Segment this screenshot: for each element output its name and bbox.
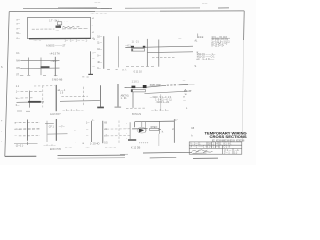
svg-text:≈4·0.5 TH: ≈4·0.5 TH [50,52,60,55]
svg-text:1:1·: 1:1· [234,153,238,155]
notes header [197,36,230,39]
dashed wire W20 vertical [82,87,84,107]
svg-text:o . t: o . t [122,69,126,72]
wire W1 [125,46,193,47]
svg-text:¼ ·1—·11: ¼ ·1—·11 [191,142,202,145]
svg-text:— · — · —: — · — · — [105,147,117,149]
svg-text:· — ·: · — · [85,147,90,149]
svg-text:A-M 4'O?: A-M 4'O? [50,113,61,116]
bottom-left tick row [14,142,38,148]
capacitor string C2 [82,51,96,77]
wire W26 vertical [46,121,48,142]
U1 pin ticks right [92,18,95,40]
wire W14 vertical dark [55,85,57,111]
ticks under W15 [17,110,30,112]
tick wires [45,123,68,134]
dashed wire W18 [61,95,88,97]
sheet top edge [23,7,229,8]
svg-text:—w·1 ·: —w·1 · [51,61,59,63]
svg-text:0—11 0—1•: 0—11 0—1• [211,46,223,48]
title block table [189,142,242,154]
dashed wire W11 [126,107,146,109]
resistor R1 [41,66,50,68]
border frame [5,11,244,157]
resistor R2 [131,46,134,48]
note text block [150,97,173,104]
svg-text:w—: w— [15,123,20,125]
svg-text:8 1 ·8·1: 8 1 ·8·1 [224,143,233,145]
wire inside U1 [32,28,89,31]
bottom border segments [5,152,218,158]
node labels left of bias network [16,53,22,77]
dashed wire W5 [152,56,175,58]
transistor Q2 [143,85,147,88]
wire W3 vertical [146,39,148,67]
svg-text:·—·—: ·—·— [94,2,101,4]
svg-text:PWR AMP: PWR AMP [150,84,161,87]
wire W12 vertical [29,91,31,108]
scribble right cells [224,148,240,154]
dashed wire W16 [21,90,43,92]
scale bar B3 [86,120,95,142]
margin ticks [1,67,3,143]
svg-text:a·: a· [183,96,185,98]
svg-text:CF 1: CF 1 [49,127,55,129]
svg-text:·—·: ·—· [56,31,60,33]
svg-text:1 · 01: 1 · 01 [121,98,128,100]
svg-text:—7—: —7— [59,127,66,129]
svg-text:- -: - - [74,130,76,132]
svg-text:· · ·: · · · [64,21,68,23]
svg-text:· — · —: · — · — [33,40,42,42]
svg-text:11—: 11— [97,42,102,44]
svg-text:A· —1· ——1 ·— 1—·1 ——: A· —1· ——1 ·— 1—·1 —— [191,146,221,149]
scale bar B2 [107,36,131,71]
svg-text:— · —: — · — [65,147,72,149]
svg-text:6O: 6O [184,91,187,93]
svg-text:40—: 40— [97,62,103,64]
svg-text:B PLUS: B PLUS [132,113,141,116]
scale bar B4 [103,121,108,145]
battery box BT2 [131,89,145,92]
svg-text:A 56O5 ———2T: A 56O5 ———2T [46,45,66,48]
svg-text:1 ·: 1 · [92,120,95,122]
bottom-left node labels [15,123,21,138]
dashed wire W30 [107,135,132,137]
dashed wire W24 [19,135,40,137]
driver stage wire W31 [135,119,175,143]
svg-text:10—: 10— [97,49,103,51]
svg-text:10—: 10— [97,36,103,38]
svg-text:1B: 1B [191,128,194,130]
svg-text:S MO-AB: S MO-AB [52,78,63,81]
bias bottom ticks [20,74,58,76]
svg-text:·10 ·0 1·: ·10 ·0 1· [15,145,24,147]
svg-text:①②③: ①②③ [197,36,203,39]
title block row1 text [191,142,233,145]
label AB T-0 [121,95,129,100]
wire W4 vertical [158,40,160,67]
bias network wires [21,57,60,76]
svg-text:S.: S. [195,66,198,68]
capacitor C1 inside U1 [49,21,79,33]
driver right labels [191,128,194,137]
svg-text:1 1 0 1: 1 1 0 1 [132,82,140,84]
wire W7 [125,84,195,87]
transistor Q1 [132,86,136,89]
wire W33a vertical faint [158,134,160,146]
transistor Q3 [132,122,148,134]
dashed wire W13 vertical [42,86,44,108]
svg-text:1— ·1— 1·— ·— 1·: 1— ·1— 1·— ·— 1· [65,41,88,43]
ground bar [128,139,136,140]
svg-text:·—·: ·—· [178,39,182,41]
wire W21 vertical dark [115,84,122,107]
left stray marks [74,130,85,145]
wire W19 [60,100,100,103]
svg-text:w · .: w · . [93,39,98,41]
svg-text:1°: 1° [175,120,177,122]
dashed wire W23 [19,128,40,130]
wire W27 vertical dark [55,119,57,141]
wire W32 vertical [129,122,131,139]
svg-text:·— 1— ·1 —· 1—: ·— 1— ·1 —· 1— [151,110,170,112]
battery box BT1 [132,49,145,52]
svg-text:M11-O2 —— O·1: M11-O2 —— O·1 [197,56,216,58]
svg-text:1 | · 2 |: 1 | · 2 | [132,42,139,44]
svg-text:O 1· 8·: O 1· 8· [224,147,231,149]
wire W9 [132,92,134,108]
title block signature scribbles [192,150,213,154]
svg-text:—·—: —·— [202,3,208,5]
wire W34 vertical [145,122,147,133]
wire W8 with arrow [145,90,192,93]
capacitor C3 string [97,85,104,108]
note rows [211,39,230,48]
amplifier unit U1 box [28,18,91,39]
driver left pin labels [126,123,127,140]
PWR AMP right pin labels [182,81,188,110]
output stage right pin labels [195,39,200,67]
note line M11 [197,54,216,61]
svg-text:· 010 0 1—81: · 010 0 1—81 [155,102,170,104]
svg-text:RHEO: RHEO [151,127,158,129]
svg-text:· — · — · — · —: · — · — · — · — [90,14,107,16]
U1 bottom tick labels [33,39,98,42]
svg-text:1—·1: 1—·1 [224,153,230,155]
svg-text:·— 1— ·1 —· 1—: ·— 1— ·1 —· 1— ·— [62,110,84,112]
wire W2 [147,51,193,54]
svg-text:—·: —· [183,101,186,103]
dashed wire W6 [126,65,156,67]
dashed wire W29 [107,128,132,130]
svg-text:w—: w— [16,98,21,100]
svg-text:—·: —· [92,66,95,68]
svg-text:0 11 10: 0 11 10 [134,71,143,74]
rheostat box [150,127,161,130]
wire W15 with resistor R4 [17,101,45,103]
svg-text:CROSS SECTIONS: CROSS SECTIONS [210,135,248,139]
svg-text:M—: M— [17,33,22,35]
title block row2 text [191,146,231,149]
dashed wire W17a [34,85,55,87]
svg-text:em: em [197,59,200,61]
resistor R3 [143,46,146,48]
wire W25 vertical [27,120,29,141]
wire W10 [160,94,162,110]
svg-text:EON 7O5: EON 7O5 [50,148,61,151]
U1 pin labels left [17,19,22,40]
node labels left mid-low [16,86,21,107]
wire W33 vertical [159,121,161,133]
scale bar B1 [97,36,104,70]
small vertical at notes [197,34,199,39]
svg-text:K 12 DB: K 12 DB [131,147,141,150]
svg-text:+ + + + +: + + + + + [139,143,149,145]
svg-text:1- 2O 4O: 1- 2O 4O [90,144,100,146]
svg-text:1 T · 5h |: 1 T · 5h | [49,21,58,23]
dashed wire W22 [19,121,40,123]
dashed wire W28 vertical [118,121,120,144]
dashed wire W17 [21,97,35,99]
svg-text:·1—1 O——: ·1—1 O—— [202,59,215,61]
